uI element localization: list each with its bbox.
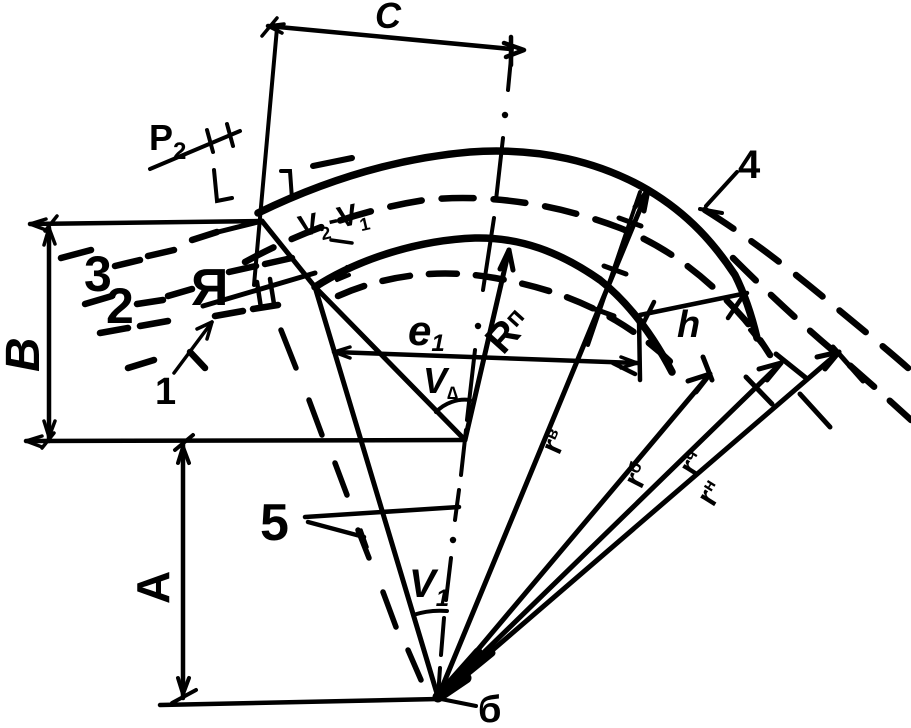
radius line O1 to T1 to T2 [262,221,465,440]
svg-text:Я: Я [191,259,228,317]
tangent line L1 from T1 to vertex [315,287,438,697]
vertical line from C left end down through T2 [254,28,277,285]
svg-text:е1: е1 [408,307,445,357]
C dimension line at top [268,26,511,49]
ray r_v from vertex to outer arc [438,190,648,697]
svg-text:4: 4 [738,143,761,187]
inner solid arc (widened inner carriageway edge) [315,238,672,372]
ray C from vertex [438,352,839,697]
svg-text:В: В [0,337,50,372]
dashed arc 4b (second embankment boundary) [733,258,911,420]
svg-text:C: C [375,0,402,36]
vertex label [441,699,476,706]
svg-text:rн: rн [689,474,731,512]
wire: A dimension vertical line x=182 [181,444,186,698]
h dimension [640,293,747,315]
radial tick line through band [588,192,640,345]
leader arrow from label 1 [174,322,212,373]
dashed line 2 (left, original axis tangent) [85,258,292,304]
dashed tangent D_left to vertex [281,330,421,680]
ray B from vertex [438,363,781,697]
angle V1 at vertex [413,611,447,615]
dashed line 3 (left, original outer edge tangent) [61,232,217,266]
dashed line 1 (left, original inner edge tangent) [100,305,278,368]
end tick of outer arc [750,330,762,345]
right angle marks near T2 [214,170,232,201]
e1 dimension line [334,352,637,363]
svg-text:V1: V1 [409,562,449,612]
dash-dot center line from vertex through O1 to top [438,48,512,697]
dashed arc 4 (outer embankment boundary) [705,210,908,368]
wire: B dimension top horizontal line (y=224) [30,221,262,224]
wire: B dimension vertical line x=49 [47,228,52,441]
svg-text:А: А [127,571,179,604]
axis dashed arc (line 2 continuation) [245,198,770,355]
angle V_delta at O1 [436,400,470,412]
svg-text:1: 1 [155,371,176,413]
wire: horizontal line y=441 from left to center O1 [26,440,465,441]
wire: bottom horizontal line to vertex [160,699,438,705]
outer straight tangent solid segment to T2 [218,221,262,232]
dashed line 3 outside outer arc, left dash [313,158,352,166]
inner dashed arc (line 1 continuation) [338,274,682,374]
svg-text:б: б [478,689,501,728]
svg-text:5: 5 [260,494,289,552]
ray A from vertex [438,374,710,697]
vertex ink blob [438,652,478,697]
Rn radius arrow from O1 [465,250,509,440]
short stroke under e1 right end (inner arc tail) [613,363,635,374]
outer solid arc (widened outer carriageway edge) [258,151,757,338]
svg-text:h: h [677,304,700,346]
svg-text:V∆: V∆ [423,360,458,403]
